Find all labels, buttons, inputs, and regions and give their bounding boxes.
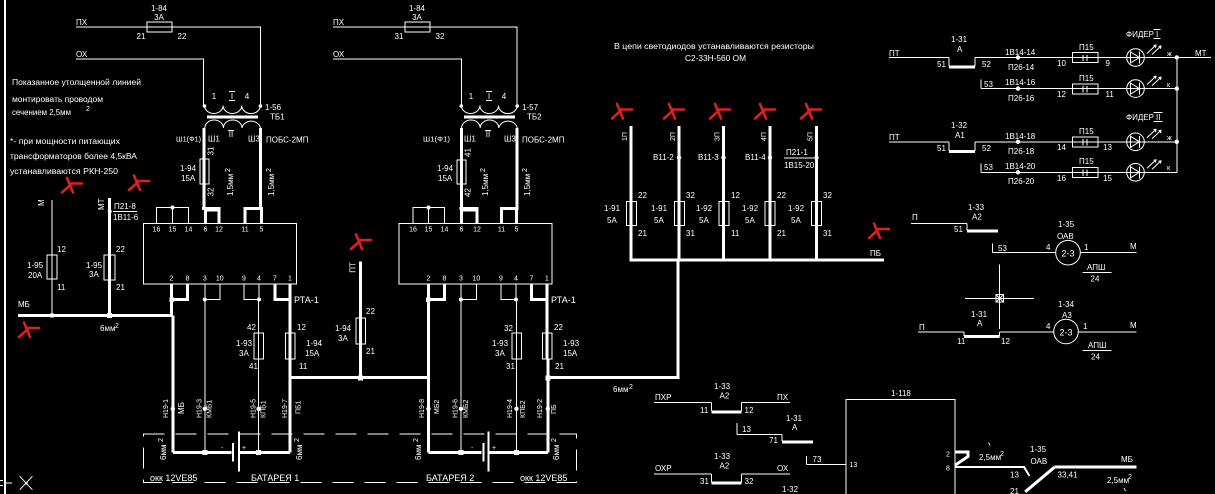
svg-text:51: 51 [937,144,946,153]
node МТ [97,198,106,210]
svg-text:В11-3: В11-3 [698,153,719,162]
wire 53 branch to ОАВ [992,244,1055,253]
svg-text:4: 4 [1046,243,1051,252]
svg-text:1В15-20: 1В15-20 [784,161,815,170]
label 6мм2 battery2 left [413,438,423,460]
LED к (feeder II) [1127,160,1171,181]
label 41 [464,148,473,157]
contact 1-31 А (11-12) [918,310,1054,346]
svg-text:1-31: 1-31 [971,310,988,319]
relay block РТА-1 (2) [399,224,552,284]
svg-text:1В14-14: 1В14-14 [1005,48,1036,57]
svg-text:1-94: 1-94 [335,324,352,333]
svg-text:7: 7 [273,276,277,283]
svg-text:сечением 2,5мм: сечением 2,5мм [12,108,71,117]
transmitter 1-34 А3 (2-3) [1046,300,1137,344]
wire LED return bus [1176,58,1178,173]
svg-text:32: 32 [686,191,695,200]
svg-text:11: 11 [731,229,740,238]
svg-text:1-93: 1-93 [236,339,253,348]
svg-text:П15: П15 [1079,157,1094,166]
svg-text:51: 51 [937,60,946,69]
svg-text:21: 21 [366,347,375,356]
svg-text:ПХ: ПХ [777,393,789,402]
svg-text:БАТАРЕЯ 2: БАТАРЕЯ 2 [426,473,474,483]
svg-text:12: 12 [1057,90,1066,99]
svg-text:15: 15 [425,227,433,234]
wire МТ out [1177,49,1211,58]
svg-text:1-94: 1-94 [180,164,197,173]
svg-text:13: 13 [850,462,858,469]
svg-text:12: 12 [473,227,481,234]
svg-text:16: 16 [409,227,417,234]
svg-text:5: 5 [515,227,519,234]
wire T1 secondary right (Ш3) to pins 11,5 [243,128,263,224]
svg-text:31: 31 [207,146,216,155]
node В11-3 [698,153,726,162]
svg-text:2: 2 [225,168,232,172]
wire bus ПБ-5П riser (y377) [548,261,678,378]
wire МТ line [108,198,111,315]
strap pins 7-1 (2) [532,284,548,453]
svg-text:21: 21 [638,229,647,238]
contact 1-33 А2 (31-32) ОХР-ОХ [654,452,799,494]
svg-text:Н19-5: Н19-5 [251,399,258,418]
svg-text:5А: 5А [745,216,755,225]
svg-text:устанавливаются РКН-250: устанавливаются РКН-250 [10,167,119,176]
label БАТАРЕЯ 2 [426,473,474,483]
label ФИДЕР I [1126,30,1161,40]
wire МБ down to battery 1 [171,315,174,452]
svg-text:12: 12 [1001,337,1010,346]
wire name Н19-5 / КПБ1 [251,399,268,418]
label 1,5мм2 (T1 left) [225,168,235,196]
red cross below РТА-1 (1) [351,235,371,250]
svg-text:1,5мм: 1,5мм [481,174,490,196]
red cross left note 2 [129,176,149,191]
svg-text:33,41: 33,41 [1058,471,1079,480]
svg-text:М: М [1130,242,1137,251]
svg-text:4: 4 [514,276,518,283]
wire pin4 to fuse 1-93 (2) [516,300,518,453]
svg-text:Н19-8: Н19-8 [419,399,426,418]
node ПХ (feeder 2) [333,18,345,27]
svg-text:Н19-1: Н19-1 [163,399,170,418]
label 6мм2 battery1 left [158,438,168,460]
svg-text:8: 8 [946,466,950,473]
svg-text:Ш1(Ф1): Ш1(Ф1) [423,137,450,144]
fuse 1-91 5А (1П) [604,191,647,238]
svg-text:11: 11 [498,227,505,234]
svg-text:ж: ж [1167,51,1172,58]
battery 1 bus and cell [173,432,290,472]
svg-text:+: + [242,445,246,452]
svg-text:1-92: 1-92 [696,204,713,213]
svg-text:1-118: 1-118 [891,389,911,398]
label 1,5мм2 (T2 left) [480,168,490,196]
svg-text:ПОБС-2МП: ПОБС-2МП [266,136,309,145]
junction battery2 КПБ2 [514,450,519,455]
svg-text:1В14-20: 1В14-20 [1005,162,1036,171]
svg-text:12: 12 [297,323,306,332]
svg-text:2: 2 [551,438,558,442]
svg-text:МБ: МБ [1121,455,1133,464]
svg-text:22: 22 [116,245,125,254]
svg-text:1-93: 1-93 [563,339,580,348]
svg-text:2-3: 2-3 [1061,249,1074,259]
label окк 12VЕ85 (1) [150,473,197,483]
svg-text:1-91: 1-91 [651,204,668,213]
label РТА-1 (2) [551,295,576,305]
svg-text:МБ: МБ [177,402,186,414]
svg-text:14: 14 [185,227,193,234]
svg-text:15: 15 [1103,174,1112,183]
svg-text:11: 11 [241,227,248,234]
LED к (feeder I) [1127,76,1171,97]
svg-text:32: 32 [823,191,832,200]
svg-text:1: 1 [1084,243,1089,252]
wire name Н19-3 / КМБ1 [197,399,214,418]
wire name Н19-7 / ПБ1 [282,399,303,418]
svg-text:ТБ2: ТБ2 [527,113,542,122]
svg-text:2,5мм: 2,5мм [1107,476,1129,485]
svg-text:1П: 1П [622,132,629,141]
junction МТ-МБ [107,313,112,318]
svg-text:6мм: 6мм [552,445,561,460]
wire fuse to pins 6,12 of РТА-1 (1) [202,184,221,224]
svg-text:31: 31 [395,32,404,41]
svg-text:1-92: 1-92 [788,204,805,213]
svg-text:6мм: 6мм [295,445,304,460]
svg-text:ТБ1: ТБ1 [270,113,285,122]
LED ж (feeder II) [1127,129,1172,150]
svg-text:15А: 15А [563,349,578,358]
svg-text:АПШ: АПШ [1087,263,1105,272]
svg-text:24: 24 [1091,353,1100,362]
svg-text:3А: 3А [495,349,505,358]
svg-text:21: 21 [1010,487,1019,494]
strap pins 7-1 (1) [275,284,290,453]
svg-text:71: 71 [769,436,778,445]
svg-text:32: 32 [745,477,754,486]
svg-text:МБ: МБ [18,300,30,309]
svg-text:2-3: 2-3 [1059,327,1072,337]
red cross 1П [612,104,632,119]
svg-text:31: 31 [823,229,832,238]
LED ж (feeder I) [1127,45,1172,66]
note text: RKN-250 [10,137,138,176]
svg-text:22: 22 [178,32,187,41]
svg-text:22: 22 [554,323,563,332]
node М [37,199,46,206]
svg-text:3: 3 [203,276,207,283]
svg-text:21: 21 [137,32,146,41]
svg-text:1-33: 1-33 [714,452,731,461]
svg-text:13: 13 [742,425,751,434]
svg-text:1-94: 1-94 [437,164,454,173]
node bus junction (row2) [1175,86,1179,90]
label АПШ/24 (upper) [1083,263,1112,284]
svg-text:КМБ1: КМБ1 [207,399,214,418]
svg-text:5А: 5А [791,216,801,225]
svg-text:А: А [792,423,798,432]
svg-text:Н19-4: Н19-4 [507,399,514,418]
svg-text:1-56: 1-56 [265,103,282,112]
resistor П15 (row1) [1057,43,1111,68]
transformer ТБ2 ПОБС-2МП [423,92,565,145]
wire name Н19-2 / ПБ [537,399,558,418]
jumper pins 16-15-14 (2) [413,206,445,224]
svg-text:31: 31 [700,477,709,486]
svg-text:4: 4 [1046,322,1051,331]
svg-text:24: 24 [1091,275,1100,284]
wire T1 secondary left (Ш1) upper [202,128,205,184]
svg-text:6мм: 6мм [159,445,168,460]
svg-text:13: 13 [1103,143,1112,152]
red cross left note 1 [62,178,82,193]
svg-text:20А: 20А [28,271,43,280]
svg-text:ОХ: ОХ [76,50,88,59]
svg-text:ОХ: ОХ [777,464,789,473]
svg-text:II: II [229,130,233,139]
svg-text:10: 10 [216,276,224,283]
svg-text:14: 14 [1057,143,1066,152]
svg-text:2: 2 [294,438,301,442]
node ОХ (feeder 1) [76,50,88,59]
svg-text:2: 2 [480,168,487,172]
jumper pins 16-15-14 (1) [157,206,189,224]
svg-text:2: 2 [629,384,633,391]
svg-text:Ш1: Ш1 [208,135,220,144]
svg-text:4: 4 [502,92,507,101]
label 1,5мм2 (T1 right) [266,168,276,196]
wire name Н19-4 / КПБ2 [507,399,527,418]
svg-text:11: 11 [700,406,709,415]
resistor П15 (row2) [1057,74,1114,99]
svg-text:11: 11 [1106,90,1115,99]
svg-text:ПБ: ПБ [551,404,558,414]
svg-text:2: 2 [426,276,430,283]
transformer ТБ1 ПОБС-2МП [176,92,309,145]
wire 2П line [670,126,679,260]
svg-text:РТА-1: РТА-1 [294,295,319,305]
wire name Н19-8 / МБ2 [419,399,441,418]
red cross below МБ [19,323,39,338]
svg-text:15: 15 [169,227,177,234]
svg-text:Н19-2: Н19-2 [537,399,544,418]
svg-text:9: 9 [1106,59,1111,68]
svg-text:3А: 3А [239,349,249,358]
svg-text:II: II [1156,113,1160,122]
wire КМБ1 down to battery 1 [204,300,206,453]
svg-text:1-94: 1-94 [306,339,323,348]
svg-text:53: 53 [984,163,993,172]
label 1,5мм2 (T2 right) [522,168,532,196]
svg-text:Н19-7: Н19-7 [282,399,289,418]
wire 1П line [622,126,631,260]
note text: LED resistors [614,42,814,63]
wire fuse to T1 pin4 [172,27,260,105]
svg-text:ПБ1: ПБ1 [296,400,303,414]
svg-text:1: 1 [1083,322,1088,331]
svg-text:трансформаторов более 4,5кВА: трансформаторов более 4,5кВА [10,152,138,161]
contact 1-32 А1 (51-52-53) [889,121,1177,172]
junction middle fuse on bus [358,375,363,380]
svg-text:М: М [37,199,46,206]
svg-text:П21-8: П21-8 [114,202,136,211]
wire ПБ bus (fuse row) [630,259,885,262]
cursor crosshair [965,265,1034,329]
svg-text:21: 21 [555,362,564,371]
wire ПТ fuse branch between batteries [349,261,361,377]
svg-text:3А: 3А [412,13,422,22]
node МТ junction (row1) [1175,55,1179,59]
svg-text:монтировать проводом: монтировать проводом [12,95,103,104]
svg-text:10: 10 [473,276,481,283]
wire fuse to pins 6,12 of РТА-1 (2) [460,184,479,224]
svg-text:I: I [1156,30,1158,39]
svg-text:41: 41 [249,362,258,371]
svg-text:1-92: 1-92 [742,204,759,213]
svg-text:15А: 15А [181,174,196,183]
svg-text:РТА-1: РТА-1 [551,295,576,305]
wire ОХ2 to T2 pin1 [333,59,461,105]
svg-text:А: А [977,319,983,328]
wire pin8 to ОАВ contact [955,442,1030,479]
svg-text:КПБ1: КПБ1 [261,400,268,418]
svg-text:ПТ: ПТ [889,49,900,58]
svg-text:I: I [231,92,233,101]
fuse 1-84 3А [137,4,187,41]
wire 5П line [808,126,817,260]
svg-text:МТ: МТ [1195,49,1207,58]
svg-text:1-35: 1-35 [1058,220,1075,229]
svg-text:1В14-18: 1В14-18 [1005,132,1036,141]
svg-text:окк 12VЕ85: окк 12VЕ85 [520,473,567,483]
svg-text:1,5мм: 1,5мм [226,174,235,196]
svg-text:3П: 3П [715,132,722,141]
fuse 1-92 5А (4П) [742,191,786,238]
fuse 1-92 5А (3П) [696,191,740,238]
strap pins 9-4 (1) [244,284,261,302]
fuse 1-93 15А (bat2) [543,323,580,371]
svg-text:5А: 5А [607,216,617,225]
svg-text:53: 53 [984,80,993,89]
wire КМБ2 down to battery 2 [460,300,462,453]
label 6мм2 under МБ bus [100,323,119,333]
svg-text:15А: 15А [305,349,320,358]
svg-text:1-34: 1-34 [1058,300,1075,309]
contact jumper pins 2-8 (1-118) [955,452,968,465]
node МБ [18,300,30,309]
svg-text:2,5мм: 2,5мм [979,453,1001,462]
red cross 5П [801,104,821,119]
svg-text:II: II [486,130,490,139]
svg-text:П26-16: П26-16 [1008,94,1035,103]
svg-text:окк 12VЕ85: окк 12VЕ85 [150,473,197,483]
node 1В14-16 / П26-16 [1005,78,1036,103]
svg-text:12: 12 [731,191,740,200]
junction ПБ bus [545,375,550,380]
svg-text:2: 2 [1128,474,1132,481]
svg-text:2: 2 [158,438,165,442]
wire МБ bus [18,314,173,317]
svg-text:4П: 4П [761,132,768,141]
svg-text:ОХР: ОХР [655,464,672,473]
svg-text:А2: А2 [720,462,730,471]
strap pins 2-8 to МБ2 (2) [428,284,444,453]
wire T2 secondary right (Ш3) to pins 11,5 [500,128,518,224]
svg-text:П26-18: П26-18 [1008,147,1035,156]
svg-text:2: 2 [413,438,420,442]
svg-text:А: А [957,45,963,54]
svg-text:10: 10 [1057,59,1066,68]
svg-text:ж: ж [1167,135,1172,142]
svg-text:5П: 5П [808,132,815,141]
svg-text:11: 11 [957,337,966,346]
svg-text:Н19-3: Н19-3 [197,399,204,418]
svg-text:21: 21 [777,229,786,238]
red cross 2П [664,104,684,119]
svg-text:6: 6 [204,227,208,234]
node 1В14-14 / П26-14 [1005,48,1036,72]
svg-text:2: 2 [266,168,273,172]
label 6мм2 battery1 right [294,438,304,460]
svg-text:1-33: 1-33 [714,382,731,391]
svg-text:32: 32 [436,32,445,41]
point marker X (bottom left) [20,476,33,489]
svg-text:1В14-16: 1В14-16 [1005,78,1036,87]
svg-text:16: 16 [153,227,161,234]
svg-text:3: 3 [459,276,463,283]
svg-text:Ш3: Ш3 [248,135,260,144]
relay block РТА-1 (1) [144,224,297,284]
resistor П15 (row4) [1057,157,1112,183]
svg-text:2: 2 [170,276,174,283]
svg-text:1-91: 1-91 [604,204,621,213]
svg-text:53: 53 [998,244,1007,253]
svg-text:П26-20: П26-20 [1008,177,1035,186]
svg-text:1-32: 1-32 [782,485,799,494]
fuse 1-94 15А (T1) [180,159,209,184]
svg-text:БАТАРЕЯ 1: БАТАРЕЯ 1 [251,473,299,483]
svg-text:8: 8 [186,276,190,283]
junction battery2 КМБ2 [458,450,463,455]
svg-text:МБ2: МБ2 [434,400,441,414]
svg-text:ОАВ: ОАВ [1031,457,1048,466]
node bus junction (row3) [1175,140,1179,144]
svg-text:ПБ: ПБ [870,249,881,258]
svg-text:31: 31 [506,362,515,371]
svg-text:1-84: 1-84 [151,4,168,13]
svg-text:А2: А2 [720,392,730,401]
svg-text:В11-4: В11-4 [745,153,766,162]
svg-text:П21-1: П21-1 [786,148,808,157]
svg-text:I: I [488,92,490,101]
svg-text:2: 2 [1000,451,1004,458]
svg-text:2: 2 [946,452,950,459]
svg-text:1В11-6: 1В11-6 [113,213,139,222]
svg-text:ПХ: ПХ [333,18,345,27]
svg-text:1: 1 [545,276,549,283]
svg-text:11: 11 [299,362,308,371]
svg-text:52: 52 [982,144,991,153]
svg-text:13: 13 [1010,471,1019,480]
svg-text:12: 12 [745,406,754,415]
junction М-МБ [50,313,54,317]
label окк 12VЕ85 (2) [520,473,567,483]
svg-text:5: 5 [260,227,264,234]
